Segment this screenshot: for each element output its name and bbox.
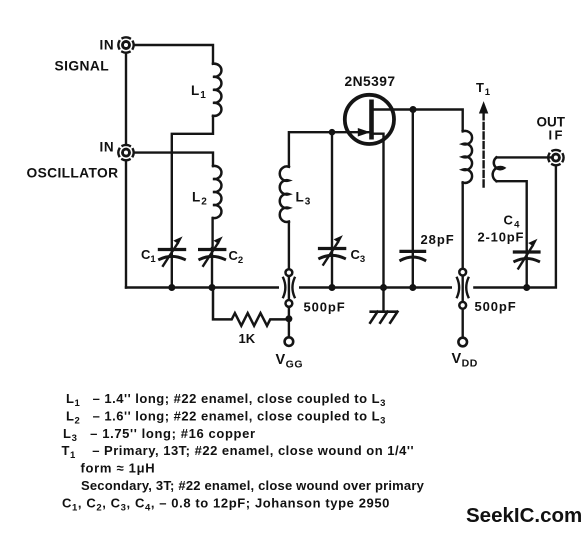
transformer T1 primary [463,131,472,183]
svg-text:C4: C4 [504,213,521,231]
junction dot source/rail [380,284,387,291]
svg-text:SeekIC.com: SeekIC.com [466,504,582,527]
junction dot drain node [410,106,417,113]
svg-text:VGG: VGG [276,352,304,371]
svg-text:C3: C3 [351,247,366,265]
inductor L2 [213,166,221,218]
svg-text:Secondary, 3T; #22 enamel, clo: Secondary, 3T; #22 enamel, close wound o… [81,478,425,493]
capacitor 28pF (fixed) [401,110,425,288]
junction dot C1/rail [168,284,175,291]
wire T1 primary bottom to feedthrough capacitor [462,183,464,269]
svg-text:2N5397: 2N5397 [345,74,396,89]
svg-text:form ≈ 1μH: form ≈ 1μH [81,461,156,476]
wire L1 bottom jog to C1 branch [172,116,213,248]
connector J2 IN OSCILLATOR [118,145,133,160]
wire L2 bottom to C2 top [211,218,213,249]
svg-text:L2 – 1.6'' long; #22 enamel,: L2 – 1.6'' long; #22 enamel, close coupl… [66,409,386,427]
inductor L3 [280,166,289,222]
ground symbol [370,312,397,323]
connector J3 OUT IF [548,150,563,165]
transistor Q1 2N5397 JFET [345,95,413,312]
wire oscillator-in to L2 top [134,153,213,166]
capacitor C1 (variable) [159,237,184,287]
svg-text:T1: T1 [476,80,491,98]
svg-text:OSCILLATOR: OSCILLATOR [27,166,119,181]
svg-text:VDD: VDD [452,351,478,370]
junction dot C2/rail [209,284,216,291]
ground rail left segment [126,286,278,288]
junction dot C4/rail [523,284,530,291]
wire signal-in shield down to oscillator-in [125,53,127,145]
T1 core dashed arrow [480,103,488,187]
inductor L1 [213,64,221,116]
junction dot gate/C3 [329,129,336,136]
svg-text:IF: IF [549,128,565,143]
svg-text:IN: IN [100,38,115,53]
svg-text:L1: L1 [191,83,207,101]
wire drain to T1 primary [413,110,463,132]
junction dot C3/rail [329,284,336,291]
svg-text:SIGNAL: SIGNAL [55,59,110,74]
notes text block [62,391,425,513]
wire gate node: L3 top to gate [289,132,369,167]
svg-text:2-10pF: 2-10pF [478,230,525,245]
svg-text:L3: L3 [296,190,312,208]
svg-text:L2: L2 [192,190,208,208]
svg-text:L1 – 1.4'' long; #22 enamel,: L1 – 1.4'' long; #22 enamel, close coupl… [66,391,386,409]
svg-text:C1: C1 [141,247,156,265]
svg-text:28pF: 28pF [421,232,455,247]
resistor R1 1K [213,288,289,326]
wire T1 secondary top to OUT [497,156,554,158]
svg-text:500pF: 500pF [304,300,346,315]
capacitor C3 (variable) [320,132,345,287]
svg-text:1K: 1K [239,331,256,346]
svg-text:T1 – Primary, 13T; #22 enam: T1 – Primary, 13T; #22 enamel, close wou… [62,443,415,461]
capacitor C4 (variable 2-10pF) [514,240,539,288]
wire L3 bottom to feedthrough capacitor [288,222,290,269]
capacitor C2 (variable) [200,237,225,287]
svg-text:500pF: 500pF [475,299,517,314]
svg-text:C1, C2, C3, C4, – 0.8 to 12pF;: C1, C2, C3, C4, – 0.8 to 12pF; Johanson … [62,495,390,513]
connector J1 IN SIGNAL [118,37,133,52]
feedthrough capacitor 500pF (VGG) [283,269,294,346]
wire T1 secondary bottom to C4 [497,181,527,250]
wire oscillator-in shield down to ground rail [125,160,127,287]
feedthrough capacitor 500pF (VDD) [457,269,468,347]
wire signal-in to L1 top [134,45,213,64]
junction dot R1/VGG [285,315,292,322]
svg-text:L3 – 1.75'' long; #16 copper: L3 – 1.75'' long; #16 copper [63,426,256,444]
svg-text:IN: IN [100,140,115,155]
ground rail right segment up to OUT shield [474,166,556,288]
ground rail middle segment [300,286,451,288]
transformer T1 secondary [493,157,504,181]
svg-text:C2: C2 [229,248,244,266]
junction dot 28pF/rail [409,284,416,291]
